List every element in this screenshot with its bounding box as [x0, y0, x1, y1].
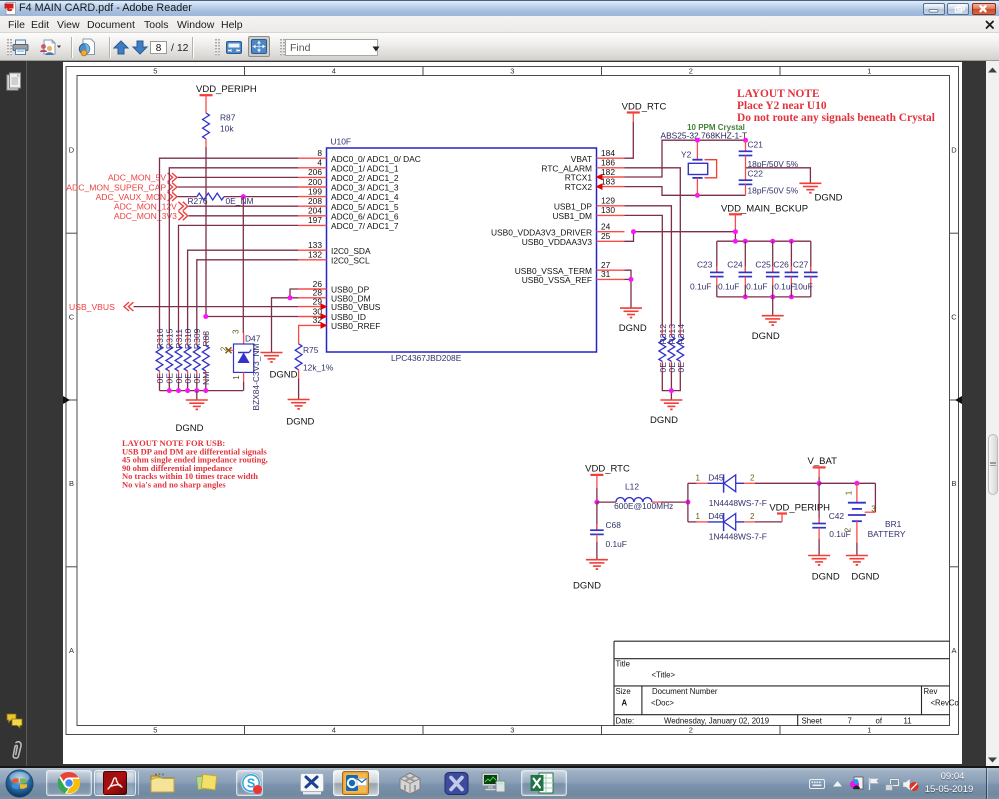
- svg-text:of: of: [876, 717, 883, 726]
- svg-text:DGND: DGND: [815, 193, 843, 204]
- svg-text:USB0_RREF: USB0_RREF: [331, 321, 380, 331]
- svg-text:Wednesday, January 02, 2019: Wednesday, January 02, 2019: [664, 717, 769, 726]
- node ADC_MON_5V off-page connector: [108, 173, 177, 183]
- svg-text:DGND: DGND: [851, 572, 879, 583]
- svg-text:C42: C42: [829, 511, 845, 521]
- svg-text:ADC0_5/ ADC1_5: ADC0_5/ ADC1_5: [331, 202, 399, 212]
- svg-text:31: 31: [601, 269, 611, 279]
- U10F pin 30 USB0_ID: [298, 306, 366, 322]
- svg-text:B: B: [69, 479, 74, 488]
- svg-text:DGND: DGND: [286, 417, 314, 428]
- svg-text:204: 204: [308, 206, 322, 216]
- resistor R314 0E: [676, 324, 686, 373]
- junction R276 / D47 node: [241, 194, 246, 199]
- inductor L12 600E@100MHz: [597, 482, 688, 512]
- svg-text:USB1_DM: USB1_DM: [552, 211, 592, 221]
- svg-text:C: C: [69, 312, 75, 321]
- svg-text:5: 5: [153, 67, 157, 76]
- wire net ADC_VAUX_MON to R276 to pin 199: [178, 196, 197, 198]
- svg-text:B: B: [951, 479, 956, 488]
- svg-text:Y2: Y2: [681, 150, 692, 160]
- ground DGND (C68): [573, 560, 608, 592]
- svg-text:2: 2: [750, 473, 755, 482]
- power symbol VDD_RTC (VBAT): [622, 102, 667, 122]
- resistor R312 0E: [658, 324, 668, 373]
- svg-text:206: 206: [308, 167, 322, 177]
- wire net pin197 (to R311): [179, 225, 299, 333]
- svg-text:183: 183: [601, 176, 615, 186]
- svg-text:Sheet: Sheet: [802, 717, 823, 726]
- U10F pin 4 ADC0_1/ ADC1_1: [298, 158, 399, 174]
- U10F pin 199 ADC0_4/ ADC1_4: [298, 186, 399, 202]
- wire net pin8 (to R316): [160, 158, 299, 333]
- svg-text:C23: C23: [697, 260, 713, 270]
- svg-text:VBAT: VBAT: [571, 154, 592, 164]
- junction C21 top: [743, 138, 748, 143]
- svg-text:0E: 0E: [676, 362, 686, 373]
- svg-text:4: 4: [332, 726, 336, 735]
- svg-text:ADC0_7/ ADC1_7: ADC0_7/ ADC1_7: [331, 221, 399, 231]
- svg-text:RTCX1: RTCX1: [565, 173, 593, 183]
- capacitor C25 0.1uF: [746, 241, 779, 297]
- svg-text:ADC0_6/ ADC1_6: ADC0_6/ ADC1_6: [331, 211, 399, 221]
- svg-text:DGND: DGND: [650, 415, 678, 426]
- wire net USB0_DM pin 28 (to DGND): [272, 298, 299, 352]
- U10F pin 25 USB0_VDDAA3V3: [522, 231, 625, 247]
- wire VDD_RTC to L12/C68 node: [596, 488, 598, 502]
- svg-text:Do not route any signals benea: Do not route any signals beneath Crystal: [737, 112, 935, 124]
- U10F pin 208 ADC0_5/ ADC1_5: [298, 196, 399, 212]
- svg-text:DGND: DGND: [573, 580, 601, 591]
- U10F pin 32 USB0_RREF: [298, 315, 380, 331]
- svg-text:1: 1: [695, 512, 700, 521]
- svg-text:0.1uF: 0.1uF: [774, 282, 795, 292]
- wire net USB0_VDDA3V3 pins 24/25 to VDD_MAIN_BCKUP: [625, 232, 736, 242]
- svg-text:0.1uF: 0.1uF: [746, 282, 767, 292]
- wire net USB_VBUS to pin 29: [134, 306, 299, 308]
- svg-text:1N4448WS-7-F: 1N4448WS-7-F: [709, 531, 767, 541]
- svg-text:VDD_PERIPH: VDD_PERIPH: [196, 84, 257, 95]
- svg-text:DGND: DGND: [812, 572, 840, 583]
- svg-text:ADC0_1/ ADC1_1: ADC0_1/ ADC1_1: [331, 163, 399, 173]
- svg-text:C24: C24: [727, 260, 743, 270]
- svg-text:11: 11: [904, 717, 912, 726]
- wire net USB1_DM pin130 to R312: [625, 215, 663, 325]
- wire net ADC_MON_5V to pin 206: [178, 176, 298, 178]
- svg-text:Place Y2 near U10: Place Y2 near U10: [737, 100, 827, 112]
- junction USB0_DP/USB0_DM: [288, 295, 293, 300]
- svg-text:ADC_MON_12V: ADC_MON_12V: [114, 202, 177, 212]
- junction crystal top net: [695, 138, 700, 143]
- ground DGND (battery): [846, 556, 880, 583]
- node ADC_MON_3V3 off-page connector: [114, 211, 188, 221]
- svg-text:I2C0_SCL: I2C0_SCL: [331, 255, 370, 265]
- frame zone ticks: [66, 67, 959, 735]
- svg-text:DGND: DGND: [176, 423, 204, 434]
- wire C21/C22 midpoint to DGND: [746, 168, 811, 184]
- svg-text:I2C0_SDA: I2C0_SDA: [331, 246, 371, 256]
- resistor R310 0E (pull-down): [183, 328, 193, 390]
- ground DGND (crystal caps): [799, 183, 842, 203]
- schematic page frame outer border: [66, 67, 959, 735]
- svg-text:<Doc>: <Doc>: [651, 699, 674, 708]
- crystal Y2 ABS25-32.768KHZ-1-T: [661, 123, 748, 196]
- U10F pin 31 USB0_VSSA_REF: [522, 269, 625, 285]
- wire net USB0_ID pin 30 (R87/R88 node): [206, 316, 298, 318]
- svg-text:VDD_MAIN_BCKUP: VDD_MAIN_BCKUP: [721, 203, 808, 214]
- junction pins24/25: [631, 229, 636, 234]
- U10F pin 130 USB1_DM: [552, 205, 624, 221]
- U10F pin 184 VBAT: [571, 148, 625, 164]
- capacitor C68 0.1uF: [590, 502, 627, 560]
- node USB_VBUS off-page connector: [69, 302, 133, 312]
- svg-text:NM: NM: [201, 372, 211, 385]
- svg-text:No via's and no sharp angles: No via's and no sharp angles: [122, 480, 226, 490]
- ground DGND (R75): [286, 400, 314, 428]
- svg-text:C27: C27: [793, 260, 809, 270]
- svg-text:3: 3: [510, 67, 514, 76]
- wire capacitor rail bottom: [717, 296, 811, 298]
- capacitor C27 10uF: [793, 241, 818, 297]
- svg-text:2: 2: [750, 512, 755, 521]
- power symbol VDD_PERIPH (top, feeds R87): [196, 84, 257, 113]
- junction crystal bottom net: [695, 193, 700, 198]
- node ADC_MON_12V off-page connector: [114, 202, 188, 212]
- svg-text:182: 182: [601, 167, 615, 177]
- svg-text:<RevCo: <RevCo: [931, 699, 960, 708]
- wire net pin4 (to R315): [169, 168, 298, 333]
- wire battery case pin 3: [874, 483, 876, 512]
- svg-text:C21: C21: [748, 139, 764, 149]
- U10F pin 28 USB0_DM: [298, 288, 371, 304]
- svg-text:A: A: [69, 646, 74, 655]
- wire net RTCX2 pin183 to crystal bottom: [625, 187, 746, 196]
- wire net USB1_DP pin129 to R313: [625, 206, 672, 325]
- svg-text:1: 1: [695, 473, 700, 482]
- junction USB0_ID / R88: [203, 314, 208, 319]
- resistor R87 10k: [203, 113, 236, 148]
- ground DGND (R312-R314): [650, 400, 682, 426]
- op IC U10F LPC4367JBD208E body: [327, 148, 597, 352]
- svg-text:VDD_RTC: VDD_RTC: [622, 102, 667, 113]
- U10F pin 186 RTC_ALARM: [541, 158, 624, 174]
- power symbol VDD_RTC (battery circuit): [585, 463, 630, 488]
- svg-text:LAYOUT NOTE: LAYOUT NOTE: [737, 88, 820, 100]
- ground DGND (resistor bank): [176, 400, 208, 434]
- U10F pin 129 USB1_DP: [554, 196, 625, 212]
- svg-text:Date:: Date:: [616, 717, 635, 726]
- capacitor C23 0.1uF: [690, 241, 724, 297]
- wire net USB0_DP pin 26: [290, 289, 298, 298]
- svg-text:Document Number: Document Number: [652, 687, 718, 696]
- junctions on resistor-bank rail: [167, 388, 172, 393]
- capacitor C26 0.1uF: [773, 241, 798, 297]
- junction L12/C68: [594, 500, 599, 505]
- wire net USB0_RREF pin 32 to R75: [297, 324, 300, 326]
- U10F pin 132 I2C0_SCL: [298, 250, 370, 266]
- U10F pin 26 USB0_DP: [298, 279, 370, 295]
- junction R31x rail: [669, 388, 674, 393]
- svg-text:USB0_VBUS: USB0_VBUS: [331, 302, 381, 312]
- svg-text:USB0_VSSA_REF: USB0_VSSA_REF: [522, 275, 592, 285]
- svg-text:ABS25-32.768KHZ-1-T: ABS25-32.768KHZ-1-T: [661, 131, 748, 141]
- svg-text:3: 3: [232, 329, 241, 334]
- capacitor C21 18pF/50V 5%: [739, 139, 799, 169]
- U10F pin 182 RTCX1: [565, 167, 625, 183]
- svg-text:4: 4: [332, 67, 336, 76]
- svg-text:BZX84-C3V3_NM: BZX84-C3V3_NM: [251, 343, 261, 410]
- svg-text:C26: C26: [773, 260, 789, 270]
- svg-text:R316: R316: [155, 328, 165, 349]
- svg-text:0.1uF: 0.1uF: [718, 282, 739, 292]
- resistor R309 0E (pull-down): [192, 328, 202, 390]
- svg-text:R87: R87: [220, 113, 236, 123]
- capacitor C24 0.1uF: [718, 241, 752, 297]
- resistor R75 12k_1%: [295, 344, 334, 400]
- wire net VBAT pin184 to VDD_RTC: [625, 122, 634, 158]
- svg-text:DGND: DGND: [619, 323, 647, 334]
- svg-text:10uF: 10uF: [794, 282, 813, 292]
- resistor R276 0E_NM: [188, 193, 254, 206]
- resistor R315 0E (pull-down): [165, 328, 175, 390]
- frame zone numbers and letters: [69, 67, 958, 735]
- wire net I2C0_SCL pin 132 (to R309): [197, 260, 298, 333]
- svg-text:A: A: [622, 699, 628, 708]
- junction pins27/31: [629, 277, 634, 282]
- svg-text:ADC0_4/ ADC1_4: ADC0_4/ ADC1_4: [331, 192, 399, 202]
- svg-text:197: 197: [308, 215, 322, 225]
- fold marks: [63, 396, 70, 404]
- svg-text:4: 4: [317, 158, 322, 168]
- svg-text:184: 184: [601, 148, 615, 158]
- svg-text:R314: R314: [676, 324, 686, 345]
- wire rail to DGND: [196, 391, 198, 400]
- svg-text:5: 5: [153, 726, 157, 735]
- svg-text:3: 3: [510, 726, 514, 735]
- svg-text:Rev: Rev: [924, 687, 938, 696]
- wire net ADC_MON_12V to pin 208: [189, 205, 298, 207]
- svg-text:130: 130: [601, 205, 615, 215]
- ground DGND (USB0_DM): [261, 353, 298, 381]
- U10F pin 206 ADC0_2/ ADC1_2: [298, 167, 399, 183]
- svg-text:133: 133: [308, 240, 322, 250]
- svg-text:RTCX2: RTCX2: [565, 182, 593, 192]
- svg-text:2: 2: [689, 726, 693, 735]
- svg-text:200: 200: [308, 177, 322, 187]
- svg-text:VDD_PERIPH: VDD_PERIPH: [769, 502, 830, 513]
- junctions capacitor rails: [733, 239, 738, 244]
- U10F pin 197 ADC0_7/ ADC1_7: [298, 215, 399, 231]
- svg-text:C: C: [951, 312, 957, 321]
- wire V_BAT to battery: [819, 482, 875, 484]
- wire net I2C0_SDA pin 133 (to R310): [188, 250, 298, 333]
- resistor R88 NM (pull-down): [201, 331, 211, 391]
- svg-text:C25: C25: [755, 260, 771, 270]
- svg-text:1N4448WS-7-F: 1N4448WS-7-F: [709, 498, 767, 508]
- svg-text:DGND: DGND: [752, 331, 780, 342]
- svg-text:0.1uF: 0.1uF: [690, 282, 711, 292]
- svg-text:ADC0_2/ ADC1_2: ADC0_2/ ADC1_2: [331, 173, 399, 183]
- diode D46 1N4448WS-7-F: [688, 511, 782, 541]
- capacitor C22 18pF/50V 5%: [739, 168, 799, 196]
- svg-text:25: 25: [601, 231, 611, 241]
- power symbol VDD_MAIN_BCKUP: [721, 203, 808, 231]
- svg-text:V_BAT: V_BAT: [808, 456, 838, 467]
- wire net ADC_MON_SUPER_CAP to pin 200: [178, 186, 298, 188]
- U10F pin 24 USB0_VDDA3V3_DRIVER: [491, 222, 625, 238]
- svg-text:7: 7: [848, 717, 852, 726]
- U10F pin 29 USB0_VBUS: [298, 296, 381, 312]
- junction VDD_MAIN_BCKUP stub: [733, 229, 738, 234]
- svg-text:BR1: BR1: [885, 519, 902, 529]
- svg-text:D: D: [69, 146, 75, 155]
- wire net RTC_ALARM pin186 to R314: [625, 168, 681, 325]
- svg-text:208: 208: [308, 196, 322, 206]
- wire net USB0_VSSA pins 27/31 to DGND: [625, 270, 632, 279]
- svg-text:L12: L12: [625, 482, 639, 492]
- svg-text:U10F: U10F: [331, 137, 351, 147]
- svg-text:R276: R276: [188, 196, 208, 206]
- svg-text:R75: R75: [303, 345, 319, 355]
- U10F pin 200 ADC0_3/ ADC1_3: [298, 177, 399, 193]
- wire resistor-bank common rail: [160, 390, 244, 392]
- svg-text:ADC0_3/ ADC1_3: ADC0_3/ ADC1_3: [331, 183, 399, 193]
- U10F pin 133 I2C0_SDA: [298, 240, 371, 256]
- svg-text:C68: C68: [606, 520, 622, 530]
- svg-text:ADC_VAUX_MON: ADC_VAUX_MON: [96, 192, 167, 202]
- svg-text:USB0_VDDAA3V3: USB0_VDDAA3V3: [522, 237, 593, 247]
- U10F pin 27 USB0_VSSA_TERM: [515, 260, 625, 276]
- capacitor C42 0.1uF: [812, 483, 850, 555]
- svg-text:ADC_MON_3V3: ADC_MON_3V3: [114, 211, 177, 221]
- svg-text:R88: R88: [201, 331, 211, 347]
- junction L12/diodes node: [685, 500, 690, 505]
- svg-text:0E: 0E: [155, 373, 165, 384]
- svg-text:Title: Title: [616, 660, 630, 669]
- svg-text:0.1uF: 0.1uF: [829, 529, 850, 539]
- resistor R316 0E (pull-down): [155, 328, 165, 390]
- svg-text:ADC_MON_5V: ADC_MON_5V: [108, 173, 167, 183]
- svg-text:129: 129: [601, 196, 615, 206]
- wire capacitor rail top: [717, 240, 811, 242]
- svg-text:199: 199: [308, 186, 322, 196]
- svg-text:12k_1%: 12k_1%: [303, 363, 334, 373]
- svg-text:D: D: [951, 146, 957, 155]
- svg-text:D47: D47: [245, 334, 261, 344]
- ground DGND (USB0_VSSA): [619, 308, 647, 334]
- wire R87 bottom to USB0_ID net: [205, 147, 207, 317]
- svg-text:D46: D46: [708, 511, 724, 521]
- svg-text:C22: C22: [748, 169, 764, 179]
- node ADC_VAUX_MON off-page connector: [96, 192, 177, 202]
- note: USB layout note text: [122, 438, 268, 490]
- svg-text:ADC_MON_SUPER_CAP: ADC_MON_SUPER_CAP: [66, 182, 166, 192]
- svg-text:Size: Size: [616, 687, 631, 696]
- svg-text:D45: D45: [708, 472, 724, 482]
- battery BR1 BATTERY: [844, 483, 906, 555]
- svg-text:0.1uF: 0.1uF: [606, 539, 627, 549]
- svg-text:USB1_DP: USB1_DP: [554, 201, 593, 211]
- svg-text:USB_VBUS: USB_VBUS: [69, 302, 115, 312]
- junction V_BAT node: [817, 481, 822, 486]
- svg-text:2: 2: [689, 67, 693, 76]
- svg-text:BATTERY: BATTERY: [868, 529, 906, 539]
- wire net ADC_MON_3V3 to pin 204: [189, 215, 298, 217]
- wire R276 node to D47 pin 3: [242, 197, 244, 333]
- resistor R313 0E: [667, 324, 677, 373]
- svg-text:ADC0_0/ ADC1_0/ DAC: ADC0_0/ ADC1_0/ DAC: [331, 154, 421, 164]
- svg-text:1: 1: [867, 726, 871, 735]
- svg-text:1: 1: [845, 490, 854, 495]
- wire caps rail to DGND: [772, 297, 774, 316]
- wire net RTCX1 pin182 to crystal top: [625, 140, 746, 177]
- svg-text:132: 132: [308, 250, 322, 260]
- svg-text:<Title>: <Title>: [652, 671, 676, 680]
- svg-text:10k: 10k: [220, 124, 234, 134]
- diode D45 1N4448WS-7-F: [688, 472, 819, 507]
- node ADC_MON_SUPER_CAP off-page connector: [66, 182, 177, 192]
- svg-text:USB0_VDDA3V3_DRIVER: USB0_VDDA3V3_DRIVER: [491, 227, 592, 237]
- resistor R311 0E (pull-down): [174, 329, 184, 391]
- svg-text:1: 1: [232, 375, 241, 380]
- svg-text:0E_NM: 0E_NM: [226, 196, 254, 206]
- svg-text:A: A: [951, 646, 956, 655]
- power symbol VDD_PERIPH (D46 cathode): [769, 502, 830, 522]
- wire diodes branch vertical: [687, 483, 689, 522]
- diode D47 BZX84-C3V3_NM (zener): [220, 329, 261, 410]
- U10F pin 204 ADC0_6/ ADC1_6: [298, 206, 399, 222]
- svg-text:3: 3: [871, 504, 876, 513]
- svg-text:8: 8: [317, 148, 322, 158]
- ground DGND (C42): [808, 556, 840, 583]
- ground DGND (backup caps): [752, 316, 784, 343]
- note: layout note (crystal): [737, 88, 935, 124]
- svg-text:24: 24: [601, 222, 611, 232]
- power symbol V_BAT: [808, 456, 838, 483]
- svg-text:DGND: DGND: [270, 370, 298, 381]
- wire R312-R314 to common node: [662, 372, 680, 391]
- U10F pin 8 ADC0_0/ ADC1_0/ DAC: [298, 148, 421, 164]
- svg-text:VDD_RTC: VDD_RTC: [585, 463, 630, 474]
- U10F pin 183 RTCX2: [565, 176, 625, 192]
- junction battery top: [854, 481, 859, 486]
- schematic page frame inner border: [77, 76, 950, 726]
- svg-text:1: 1: [867, 67, 871, 76]
- svg-text:18pF/50V 5%: 18pF/50V 5%: [748, 186, 799, 196]
- title block: [614, 641, 950, 725]
- svg-text:LPC4367JBD208E: LPC4367JBD208E: [391, 353, 462, 363]
